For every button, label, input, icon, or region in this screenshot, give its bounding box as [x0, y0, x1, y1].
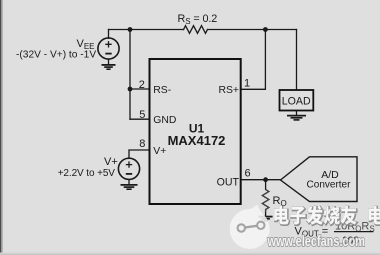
resistor RO (seen through watermark): [262, 190, 268, 213]
svg-text:1: 1: [244, 77, 250, 89]
wire: pin 5 (GND): [130, 118, 150, 120]
watermark: www.elecfans.com: [267, 233, 365, 250]
wire: top rail right segment (RS to LOAD drop): [208, 29, 297, 31]
svg-text:+2.2V to +5V: +2.2V to +5V: [58, 168, 116, 179]
ground (below RO): [259, 217, 273, 221]
svg-text:V+: V+: [104, 156, 118, 168]
svg-text:RS = 0.2: RS = 0.2: [178, 13, 218, 26]
watermark: 电子发烧友 text (glyph outlines): [274, 206, 380, 226]
voltage source VEE: [98, 38, 119, 59]
svg-text:8: 8: [139, 138, 145, 150]
node: junction OUT/RO/A-D: [263, 177, 268, 182]
op-amp U1 MAX4172 (IC body): [150, 59, 241, 204]
wire: pin 8 (V+) to V+ source: [129, 150, 150, 158]
svg-text:GND: GND: [153, 115, 176, 126]
wire: pin 1 (RS+) up to top rail: [241, 30, 266, 90]
svg-text:6: 6: [245, 167, 251, 179]
ground (below LOAD): [287, 111, 306, 120]
node: junction RS+/LOAD on top rail: [263, 27, 268, 32]
svg-text:2: 2: [139, 79, 145, 91]
node: junction pin2 branch: [128, 87, 133, 92]
A/D Converter block: [281, 157, 358, 202]
wire: top rail left segment (VEE top to RS): [109, 29, 184, 31]
svg-text:RS-: RS-: [153, 85, 171, 96]
wire: pin 6 (OUT) to A/D: [241, 179, 281, 181]
wire: drop to LOAD: [296, 30, 298, 91]
watermark: elecfans stamp logo: [230, 204, 270, 249]
resistor RS (zigzag): [184, 26, 208, 34]
svg-text:OUT: OUT: [217, 176, 240, 188]
svg-text:-(32V - V+) to -1V: -(32V - V+) to -1V: [16, 50, 96, 61]
svg-text:RS+: RS+: [218, 85, 239, 96]
svg-text:V+: V+: [153, 146, 166, 157]
ground (below VEE): [102, 59, 116, 69]
wire: branch down to pins 2 and 5: [129, 30, 131, 120]
svg-text:Converter: Converter: [307, 180, 352, 191]
svg-text:5: 5: [139, 109, 145, 121]
svg-text:LOAD: LOAD: [282, 96, 311, 108]
resistor RO (vertical zigzag): [262, 180, 268, 216]
node: junction VEE/branch on top rail: [128, 27, 133, 32]
svg-text:MAX4172: MAX4172: [168, 133, 226, 148]
ground (below V+): [121, 179, 138, 189]
svg-text:www.elecfans.com: www.elecfans.com: [267, 233, 365, 250]
LOAD box: [280, 90, 314, 111]
wire: VEE source top stub: [108, 30, 110, 39]
wire: pin 2 (RS-): [130, 88, 150, 90]
voltage source V+: [118, 158, 139, 179]
